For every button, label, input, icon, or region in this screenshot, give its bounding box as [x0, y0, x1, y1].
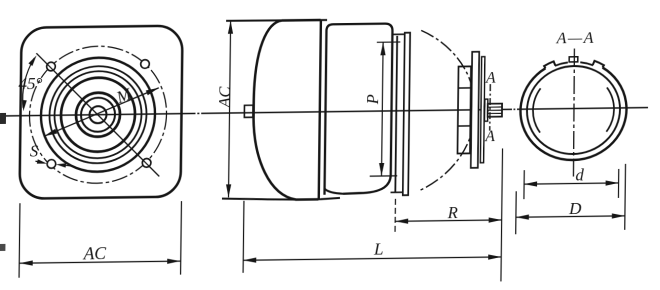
- circle r37 concentric: [61, 77, 136, 152]
- dimension line M bolt circle diameter: [44, 88, 159, 136]
- bolt circle dash-dot: [29, 45, 168, 184]
- D dimension line: [516, 213, 625, 220]
- flange plate outline rounded square: [20, 26, 183, 199]
- R dimension line: [395, 217, 502, 224]
- bolt hole top-right: [141, 60, 150, 69]
- svg-text:d: d: [575, 165, 584, 184]
- push rod washer: [485, 99, 488, 121]
- label d: [575, 165, 584, 184]
- d extension line left: [523, 170, 525, 199]
- R left extension dashed: [394, 199, 396, 235]
- bolt hole bottom-right: [142, 159, 151, 168]
- mounting flange disc: [471, 52, 479, 168]
- svg-text:R: R: [447, 203, 458, 222]
- svg-text:AC: AC: [215, 85, 234, 108]
- label M: [113, 84, 135, 108]
- A-A vertical centerline: [573, 49, 575, 179]
- L dimension line: [243, 254, 501, 263]
- P bottom extension line: [370, 175, 398, 177]
- svg-text:L: L: [373, 239, 384, 258]
- scan mark lower left: [0, 244, 5, 251]
- clamp band bottom cap: [391, 191, 403, 193]
- circle r43.5 concentric: [54, 71, 142, 159]
- hole diameter S arrows: [35, 159, 73, 168]
- svg-text:A: A: [484, 128, 495, 145]
- AC bottom extension line / dome bottom lip: [222, 197, 340, 201]
- hub block: [457, 66, 471, 153]
- svg-text:45°: 45°: [18, 74, 42, 93]
- rear dome right edge seam: [319, 20, 321, 199]
- L left extension line: [242, 201, 245, 273]
- AC extension line right: [180, 201, 183, 275]
- band end mid arc left: [555, 62, 568, 65]
- wire horizontal centerline (main axis): [0, 108, 648, 116]
- AC extension line left: [18, 203, 21, 277]
- D extension line right: [624, 164, 627, 230]
- circle r48.5 concentric: [49, 66, 147, 164]
- label AC vertical: [215, 85, 234, 108]
- svg-text:A: A: [485, 70, 496, 87]
- d extension line right: [617, 169, 619, 198]
- label L: [373, 239, 384, 258]
- P dimension line: [379, 42, 386, 176]
- bolt hole top-left: [47, 62, 56, 71]
- phantom arc dash-dot housing: [419, 30, 476, 191]
- right extension line rod end: [501, 148, 503, 281]
- band bolt ear right: [593, 61, 604, 68]
- svg-text:D: D: [568, 199, 582, 218]
- label R: [447, 203, 458, 222]
- section line A-A dash-dot: [489, 84, 492, 131]
- circle r57 concentric: [40, 57, 155, 172]
- air inlet port boss: [244, 105, 253, 117]
- label A bottom: [484, 128, 495, 145]
- second flange disc: [480, 57, 484, 163]
- scan mark left edge: [0, 113, 6, 124]
- clamp ring inner circle: [526, 65, 620, 154]
- circle r22 concentric: [76, 92, 121, 137]
- inner side arc right: [606, 87, 614, 131]
- dimension line AC: [20, 259, 181, 266]
- svg-text:A—A: A—A: [556, 30, 595, 48]
- svg-text:S: S: [30, 141, 38, 160]
- AC top extension line / dome top: [226, 20, 327, 22]
- body bottom-left foot: [325, 189, 344, 194]
- label P: [363, 94, 382, 105]
- diagonal centerline through bolt holes: [35, 52, 161, 178]
- angle dimension 45 deg arc with arrows: [22, 55, 37, 111]
- label 45deg: [18, 74, 42, 93]
- D extension line left: [515, 191, 518, 234]
- label S: [30, 141, 38, 160]
- chamber rear dome outline: [253, 20, 321, 200]
- inner side arc left: [533, 88, 541, 132]
- label A top: [485, 70, 496, 87]
- clamp band edge-on: [403, 33, 410, 196]
- band bolt ear left: [544, 61, 555, 68]
- circle r17 concentric: [81, 98, 115, 132]
- svg-text:P: P: [363, 94, 382, 105]
- AC vertical dimension line: [226, 21, 233, 198]
- circle r8.5 concentric: [89, 106, 106, 123]
- label A-A title: [556, 30, 595, 48]
- d dimension line: [524, 180, 619, 186]
- clamp tab top: [569, 57, 578, 62]
- clamp flange line x396: [395, 36, 397, 192]
- band end mid arc right: [580, 62, 593, 65]
- bolt hole bottom-left: [47, 160, 56, 169]
- push rod threaded end: [488, 104, 502, 117]
- clamp band top cap: [392, 33, 404, 35]
- label AC: [83, 243, 107, 263]
- clamp ring outer circle: [520, 67, 627, 161]
- svg-text:AC: AC: [83, 243, 107, 263]
- chamber front body outline: [325, 24, 393, 195]
- P top extension line: [377, 41, 401, 43]
- label D: [568, 199, 582, 218]
